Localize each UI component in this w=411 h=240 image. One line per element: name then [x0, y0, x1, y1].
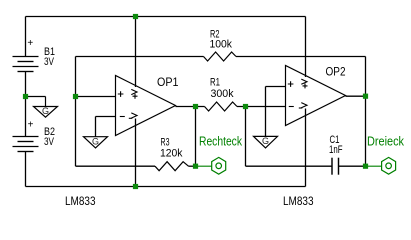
svg-text:G: G — [42, 106, 49, 116]
wire node B vertical (to C1) — [245, 107, 247, 167]
junction bottom rail / OP1 V- — [133, 184, 138, 189]
wire R3 left lead — [76, 165, 156, 167]
wire C1 right lead — [339, 165, 366, 167]
junction Rechteck node — [193, 164, 198, 169]
resistor R2 — [204, 52, 237, 61]
svg-text:300k: 300k — [211, 88, 234, 100]
junction top rail / OP1 V+ — [133, 14, 138, 19]
svg-text:+: + — [28, 119, 34, 130]
svg-text:OP2: OP2 — [326, 65, 346, 79]
svg-text:G: G — [262, 136, 269, 146]
node Dreieck output connector — [366, 157, 396, 174]
wire OP1 noninverting input — [76, 96, 116, 98]
wire OP2 noninverting input to ground — [266, 87, 286, 137]
node Rechteck output connector — [196, 157, 226, 174]
wire OP2 output — [346, 95, 366, 97]
svg-text:G: G — [92, 136, 99, 146]
svg-text:Dreieck: Dreieck — [367, 135, 405, 149]
junction R1 / C1 node — [243, 104, 248, 109]
svg-text:LM833: LM833 — [283, 194, 314, 208]
wire R3 right lead — [189, 165, 196, 167]
ground G3 (OP2 noninverting input) — [254, 136, 278, 148]
wire OP1 inverting input to ground — [96, 117, 116, 137]
junction battery midpoint — [23, 94, 28, 99]
svg-text:LM833: LM833 — [65, 194, 96, 208]
battery B1 — [13, 57, 39, 72]
wire OP2 V+ supply — [305, 17, 307, 78]
svg-text:1nF: 1nF — [329, 144, 343, 156]
junction OP1 + input — [73, 94, 78, 99]
svg-text:3V: 3V — [44, 56, 54, 68]
wire top rail — [26, 16, 306, 18]
ground G2 (OP1 inverting input) — [84, 137, 108, 148]
wire OP2 V- supply — [305, 109, 307, 187]
ground G1 (battery midpoint) — [26, 97, 58, 118]
wire R2 left lead — [76, 56, 204, 58]
wire bottom rail — [26, 186, 306, 188]
battery B2 — [13, 137, 39, 152]
wire OP1 V+ supply — [135, 17, 137, 88]
wire battery column — [25, 17, 27, 187]
resistor R3 — [155, 162, 189, 171]
wire R2 right lead to right column — [236, 56, 366, 58]
wire C1 left lead — [246, 165, 332, 167]
wire right column — [365, 57, 367, 167]
wire OP1 V- supply — [135, 119, 137, 187]
resistor R1 — [205, 102, 238, 111]
capacitor C1 — [332, 158, 339, 175]
wire R1 right lead — [237, 106, 286, 108]
svg-text:+: + — [27, 38, 33, 49]
wire OP1 output row left — [176, 106, 205, 108]
wire left feedback column — [75, 57, 77, 167]
svg-text:120k: 120k — [160, 148, 183, 160]
junction Dreieck node — [363, 164, 368, 169]
junction OP1 output — [193, 104, 198, 109]
svg-text:Rechteck: Rechteck — [199, 135, 243, 149]
junction OP2 output — [363, 94, 368, 99]
svg-text:100k: 100k — [210, 39, 233, 51]
svg-text:OP1: OP1 — [157, 75, 179, 89]
op-amp OP2 — [286, 66, 346, 126]
wire node A vertical (square output) — [195, 107, 197, 167]
svg-text:3V: 3V — [44, 136, 54, 148]
op-amp OP1 — [116, 76, 176, 136]
svg-text:R1: R1 — [210, 77, 220, 89]
